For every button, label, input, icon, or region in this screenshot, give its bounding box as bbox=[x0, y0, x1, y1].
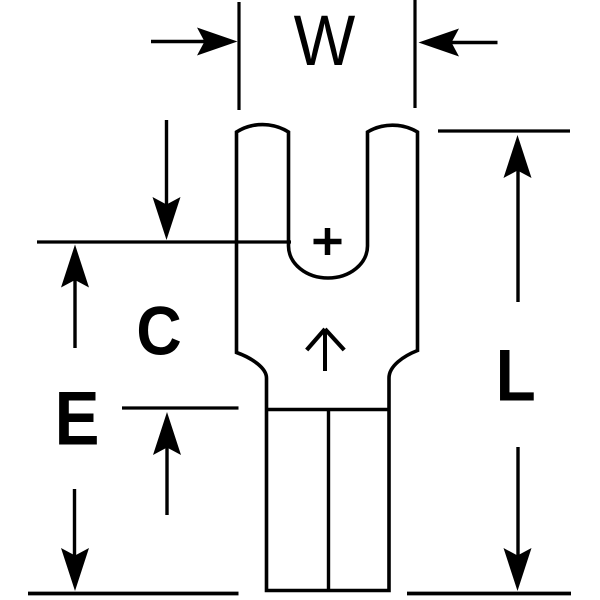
barrel center split line bbox=[327, 410, 330, 591]
E upper arrow (points up at datum) bbox=[61, 245, 89, 288]
W left extension line bbox=[237, 2, 240, 110]
slot-bottom datum line bbox=[37, 240, 291, 243]
C lower arrow (points up at seam line) bbox=[153, 412, 181, 455]
plus mark in slot bbox=[314, 239, 342, 245]
L lower arrow (points down at baseline) bbox=[516, 447, 519, 558]
C datum line at seam bbox=[122, 406, 239, 409]
svg-text:E: E bbox=[55, 377, 100, 462]
baseline left segment bbox=[28, 592, 239, 596]
svg-text:L: L bbox=[496, 334, 536, 416]
label C bbox=[136, 292, 181, 369]
E lower arrow (points down at baseline) bbox=[73, 489, 76, 558]
terminal body outline (fork/spade terminal) bbox=[237, 125, 418, 591]
L top extension line bbox=[438, 129, 570, 132]
baseline right segment bbox=[407, 592, 571, 596]
insertion direction arrow bbox=[323, 331, 327, 371]
W right extension line bbox=[413, 0, 416, 108]
W right arrow bbox=[446, 41, 498, 44]
svg-text:W: W bbox=[294, 2, 356, 81]
barrel seam line bbox=[265, 408, 391, 411]
label L bbox=[496, 334, 536, 416]
W left arrow bbox=[151, 40, 212, 43]
label W bbox=[294, 2, 356, 81]
svg-text:C: C bbox=[136, 292, 181, 369]
L upper arrow (points up at top line) bbox=[504, 135, 532, 178]
label E bbox=[55, 377, 100, 462]
C upper arrow (points down at datum) bbox=[165, 120, 168, 206]
